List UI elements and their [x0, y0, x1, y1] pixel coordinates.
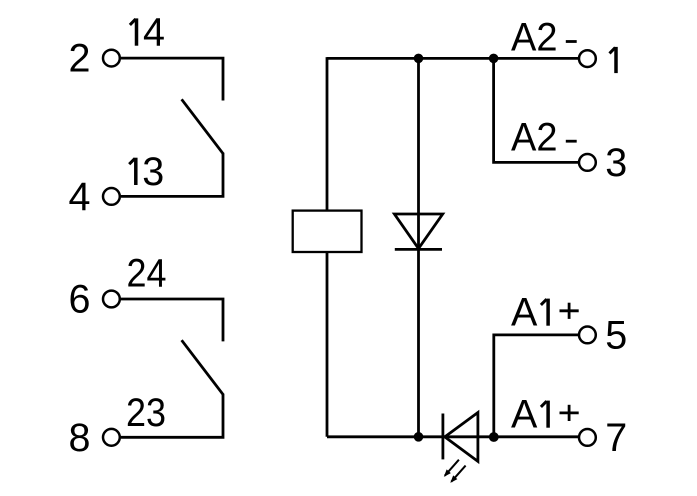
junction dot bottom right — [489, 432, 499, 442]
wire from terminal 6 to switch fixed contact — [121, 299, 223, 341]
svg-text:23: 23 — [126, 391, 166, 435]
svg-text:24: 24 — [127, 252, 167, 296]
svg-text:A: A — [511, 291, 538, 335]
terminal 6 circle — [103, 291, 120, 308]
svg-text:5: 5 — [605, 314, 627, 358]
terminal 8 circle — [103, 429, 120, 446]
switch blade contact 14-13 — [182, 99, 224, 154]
wire diode branch — [417, 58, 420, 436]
terminal 7 circle — [579, 429, 596, 446]
svg-text:A2: A2 — [511, 115, 558, 159]
svg-text:3: 3 — [142, 150, 164, 194]
svg-text:2: 2 — [69, 37, 91, 81]
bottom rail wire — [327, 435, 578, 438]
svg-text:6: 6 — [69, 278, 91, 322]
top rail wire — [327, 57, 578, 60]
junction dot top left — [414, 54, 424, 64]
label A2- lower — [511, 115, 577, 159]
terminal 5 circle — [579, 327, 596, 344]
svg-text:4: 4 — [143, 11, 165, 55]
wire from terminal 2 to switch fixed contact — [121, 58, 223, 100]
LED indicator — [443, 413, 478, 462]
terminal 1 circle — [579, 50, 596, 67]
terminal 4 circle — [103, 188, 120, 205]
label A2- upper — [511, 16, 577, 60]
svg-text:7: 7 — [605, 416, 627, 460]
label A1+ upper — [511, 291, 579, 335]
junction dot bottom left — [414, 432, 424, 442]
svg-text:8: 8 — [69, 416, 91, 460]
free-wheeling diode — [394, 214, 442, 249]
LED arrow 1 — [444, 460, 459, 477]
svg-text:3: 3 — [605, 141, 627, 185]
label terminal 1 — [610, 47, 617, 73]
wire branch to terminal 5 — [494, 335, 579, 437]
LED arrow 2 — [450, 466, 465, 483]
svg-text:A2: A2 — [511, 16, 558, 60]
switch blade contact 24-23 — [182, 340, 224, 395]
wire branch to terminal 3 — [494, 58, 579, 162]
wire coil branch down from top rail — [326, 57, 329, 212]
wire from switch blade to terminal 4 — [121, 153, 223, 197]
terminal 2 circle — [103, 50, 120, 67]
svg-text:A: A — [511, 393, 538, 437]
label contact 13 — [129, 150, 164, 194]
junction dot top right — [489, 54, 499, 64]
label contact 14 — [130, 11, 165, 55]
label A1+ lower — [511, 393, 579, 437]
wire coil to bottom rail — [326, 252, 329, 437]
terminal 3 circle — [579, 154, 596, 171]
wire from switch blade to terminal 8 — [121, 394, 223, 438]
relay coil — [293, 211, 362, 252]
svg-text:4: 4 — [69, 175, 91, 219]
